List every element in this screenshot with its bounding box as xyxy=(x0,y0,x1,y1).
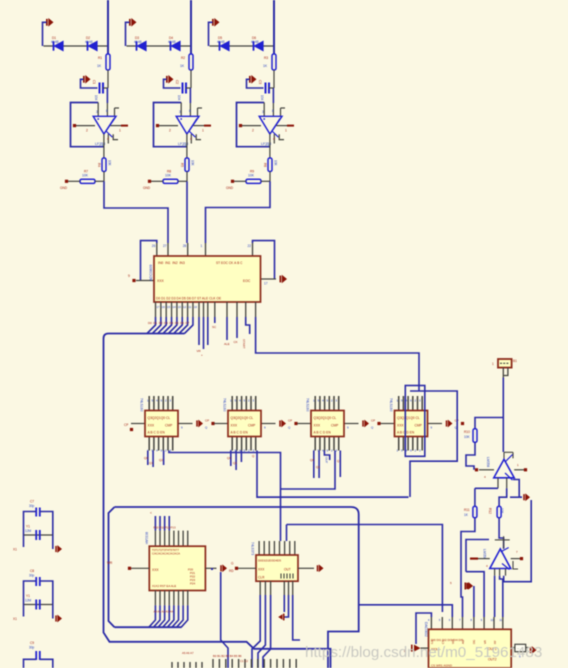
wire hook xyxy=(272,131,278,137)
svg-text:WR: WR xyxy=(107,561,113,565)
wire bus entry D1 xyxy=(152,317,161,334)
pin stub U9 top xyxy=(258,541,260,555)
svg-text:A B C D EN: A B C D EN xyxy=(231,431,249,435)
pin stub U6 bottom xyxy=(338,437,340,451)
wire xyxy=(103,87,108,89)
microcontroller U8 body xyxy=(149,546,205,590)
wire xyxy=(293,595,300,640)
svg-text:START: START xyxy=(242,339,246,349)
pin stub U7 top xyxy=(407,396,409,411)
svg-text:R4: R4 xyxy=(97,163,101,167)
terminal U6 right xyxy=(377,422,380,425)
svg-text:P10 P11 P12 P13: P10 P11 P12 P13 xyxy=(154,526,176,530)
op-amp inner mark xyxy=(272,119,280,131)
pin stub U4 top xyxy=(162,396,164,411)
wire xyxy=(103,172,105,182)
terminal U7 right xyxy=(461,422,464,425)
pin stub U3 xyxy=(236,302,238,317)
terminal output ch3 xyxy=(287,125,294,127)
wire bus entry D2 xyxy=(158,317,167,334)
wire xyxy=(210,45,275,47)
wire RC loop 8 left xyxy=(24,581,37,605)
svg-text:1K: 1K xyxy=(180,64,185,68)
wire ch1 to ADC xyxy=(104,181,168,243)
wire U5 to loop xyxy=(257,451,409,498)
wire U10 left loop xyxy=(416,613,431,644)
resistor R3 xyxy=(272,54,276,70)
svg-text:CMP: CMP xyxy=(165,424,173,428)
svg-text:D2: D2 xyxy=(159,321,163,325)
pin stub U9 top xyxy=(284,541,286,555)
wire xyxy=(131,567,149,569)
svg-text:Q0: Q0 xyxy=(144,456,148,460)
svg-text:CP: CP xyxy=(205,419,209,423)
pin stub U4 bottom xyxy=(158,437,160,451)
svg-text:30p: 30p xyxy=(29,504,35,508)
wire xyxy=(186,172,188,182)
capacitor C2 xyxy=(183,83,187,94)
wire loop U7 outer xyxy=(410,391,457,497)
svg-text:A5 A6 A7: A5 A6 A7 xyxy=(182,651,194,655)
op-amp U1B pins xyxy=(181,103,202,144)
pin stub U3 data xyxy=(155,302,157,317)
capacitor C9 xyxy=(36,651,40,660)
svg-text:B1: B1 xyxy=(513,359,517,363)
pin stub U10 top xyxy=(441,617,443,629)
pin stub U5 top xyxy=(241,396,243,411)
svg-text:74LS160: 74LS160 xyxy=(306,398,310,412)
svg-text:C3: C3 xyxy=(258,80,262,84)
svg-text:Q3Q2Q1Q0 CL: Q3Q2Q1Q0 CL xyxy=(397,416,420,420)
power arrow U9 gnd xyxy=(278,614,284,621)
svg-text:R9: R9 xyxy=(250,170,254,174)
svg-text:DI0 DI1 DI2 DI3 DI4 DI5: DI0 DI1 DI2 DI3 DI4 DI5 xyxy=(431,638,464,642)
svg-text:10K: 10K xyxy=(248,174,255,178)
svg-text:C1: C1 xyxy=(92,80,96,84)
wire xyxy=(234,180,246,182)
pin stub U7 top xyxy=(398,396,400,411)
svg-text:74LS160: 74LS160 xyxy=(223,398,227,412)
pin stub U6 bottom xyxy=(319,437,321,451)
svg-text:1: 1 xyxy=(285,129,287,133)
svg-text:R8: R8 xyxy=(167,170,171,174)
power VCC2 ch3 xyxy=(249,75,257,84)
svg-text:R6: R6 xyxy=(263,163,267,167)
svg-text:4148: 4148 xyxy=(85,40,93,44)
power VCC ch1 xyxy=(46,18,54,27)
wire xyxy=(272,103,274,116)
pin stub U8 bottom xyxy=(173,591,175,606)
svg-text:C1 C2: C1 C2 xyxy=(240,659,248,663)
power arrow after U6 xyxy=(362,420,369,428)
counter U5 body xyxy=(228,411,261,437)
terminal U4 right xyxy=(211,422,214,425)
pin stub U4 bottom xyxy=(162,437,164,451)
pin stub U10 top xyxy=(451,617,453,629)
svg-text:A0 A1 A2 A3 A4: A0 A1 A2 A3 A4 xyxy=(154,610,174,614)
svg-text:XXX: XXX xyxy=(157,279,165,283)
svg-text:10K: 10K xyxy=(464,435,471,439)
svg-text:3: 3 xyxy=(96,110,98,114)
pin stub U4 top xyxy=(148,396,150,411)
svg-text:1 5 4 9 2 3: 1 5 4 9 2 3 xyxy=(397,449,422,453)
wire xyxy=(381,423,395,425)
pin stub Y2 xyxy=(502,368,504,378)
resistor R10 xyxy=(473,429,477,443)
wire xyxy=(186,87,191,89)
wire xyxy=(500,576,503,617)
wire xyxy=(189,88,191,103)
wire bus entry xyxy=(177,605,184,627)
svg-text:Q3Q2Q1Q0 CL: Q3Q2Q1Q0 CL xyxy=(314,416,337,420)
pin stub U8 top xyxy=(164,531,166,547)
svg-text:Q2: Q2 xyxy=(159,458,163,462)
power arrow after U5 xyxy=(279,420,286,428)
wire ch2 to ADC xyxy=(186,181,188,243)
svg-text:74LS160: 74LS160 xyxy=(140,398,144,412)
svg-text:2: 2 xyxy=(86,129,88,133)
wire xyxy=(240,451,242,463)
wire xyxy=(298,567,314,569)
pin stub U10 top xyxy=(473,617,475,629)
svg-text:D3: D3 xyxy=(164,321,168,325)
wire xyxy=(226,317,228,340)
power VCC2 ch1 xyxy=(83,75,91,84)
wire xyxy=(269,87,274,89)
pin stub U9 bottom right xyxy=(283,581,285,595)
wire xyxy=(95,180,104,182)
op-amp U1C xyxy=(259,116,282,134)
pin stub U4 top xyxy=(172,396,174,411)
pin stub U4 bottom xyxy=(172,437,174,451)
pin stub U10 top xyxy=(430,617,432,629)
pin stub U7 top xyxy=(421,396,423,411)
wire xyxy=(324,451,329,461)
power arrow RC 8 xyxy=(55,615,62,623)
svg-text:D0 D1 D2 D3 D4 D5 D6 D7 ST ALE: D0 D1 D2 D3 D4 D5 D6 D7 ST ALE CLK OE xyxy=(156,297,222,301)
power arrow U10 in xyxy=(411,645,421,652)
pin stub U10 top xyxy=(483,617,485,629)
pin stub U6 top xyxy=(328,396,330,411)
terminal ref ch2 xyxy=(148,180,151,183)
pin stub U3 data xyxy=(176,302,178,317)
power arrow U9 out xyxy=(317,564,324,572)
terminal output ch1 xyxy=(121,125,128,127)
svg-text:74LS160: 74LS160 xyxy=(389,398,393,412)
wire xyxy=(511,647,515,649)
op-amp U3 ADC0809 body xyxy=(154,256,261,302)
terminal input ch2 xyxy=(156,124,159,127)
terminal ref ch1 xyxy=(65,180,68,183)
pin stub xyxy=(505,569,507,576)
svg-text:9: 9 xyxy=(128,274,130,278)
wire xyxy=(284,595,289,617)
wire xyxy=(479,469,494,471)
pin stub U4 top xyxy=(167,396,169,411)
pin stub U7 bottom xyxy=(407,437,409,451)
power arrow U8 out xyxy=(220,564,227,572)
wire U9 to bottom xyxy=(252,595,260,668)
svg-text:B0 B1 B2 B3 B4 B5 B6: B0 B1 B2 B3 B4 B5 B6 xyxy=(213,654,242,658)
pin stubs bottom edge row1 xyxy=(172,662,202,668)
svg-text:A B C D EN: A B C D EN xyxy=(148,431,166,435)
terminal U9 left xyxy=(235,567,238,570)
wire xyxy=(24,659,37,668)
svg-text:R5: R5 xyxy=(180,163,184,167)
svg-text:15: 15 xyxy=(167,305,171,309)
svg-text:GND: GND xyxy=(226,186,234,190)
latch U9 body xyxy=(256,555,298,581)
pin stub U8 bottom xyxy=(178,591,180,606)
pin stub U8 bottom xyxy=(168,591,170,606)
pin stub U3 xyxy=(245,302,247,317)
counter U6 body xyxy=(311,411,344,437)
svg-text:1: 1 xyxy=(119,129,121,133)
pin stub U3 data xyxy=(192,302,194,317)
svg-text:XXX: XXX xyxy=(152,568,159,572)
pin stub U10 top xyxy=(493,617,495,629)
pin stub U6 bottom xyxy=(314,437,316,451)
capacitor C1 xyxy=(100,83,104,94)
svg-text:14: 14 xyxy=(172,305,176,309)
pin stub U9 top xyxy=(289,541,291,555)
svg-text:XXX: XXX xyxy=(231,424,238,428)
wire xyxy=(126,22,130,46)
pin stub U3 data xyxy=(160,302,162,317)
U9 logo bars xyxy=(281,574,293,579)
op-amp inner mark xyxy=(106,119,114,131)
op-amp U11A hooks xyxy=(505,455,513,481)
svg-text:74LS373: 74LS373 xyxy=(251,542,255,555)
wire U3 left loop xyxy=(141,241,157,281)
wire xyxy=(214,423,228,425)
pin stub U9 bottom xyxy=(264,581,266,595)
svg-text:12: 12 xyxy=(183,305,187,309)
resistor R9 xyxy=(246,179,261,183)
wire Y2 down xyxy=(502,378,504,453)
resistor R6 xyxy=(268,158,272,172)
resistor R4 xyxy=(102,158,106,172)
wire xyxy=(190,0,192,54)
wire xyxy=(81,79,98,88)
pin stub U6 bottom xyxy=(333,437,335,451)
diode D1 xyxy=(54,41,64,50)
terminal input ch1 xyxy=(73,124,76,127)
svg-text:− +: − + xyxy=(99,144,104,148)
svg-text:D4: D4 xyxy=(169,321,173,325)
terminal U5 right xyxy=(294,422,297,425)
wire bus entry D3 xyxy=(163,317,172,334)
pin stub U6 bottom xyxy=(328,437,330,451)
svg-text:CMP: CMP xyxy=(331,424,339,428)
wire R10 down xyxy=(466,442,475,470)
wire xyxy=(242,125,261,127)
svg-text:22: 22 xyxy=(248,244,252,248)
svg-text:CK: CK xyxy=(234,340,238,344)
svg-text:104: 104 xyxy=(260,95,264,101)
wire R11 down xyxy=(461,518,475,617)
pin stub U3 xyxy=(255,302,257,317)
op-amp U1C pins xyxy=(264,103,285,144)
pin stub U8 top xyxy=(173,531,175,547)
wire feedback loop ch1 xyxy=(71,103,104,147)
svg-text:− +: − + xyxy=(182,144,187,148)
wire xyxy=(23,605,25,617)
pin stub U4 bottom xyxy=(167,437,169,451)
wire xyxy=(276,125,287,127)
svg-text:1K: 1K xyxy=(97,64,102,68)
wire xyxy=(186,134,188,158)
wire bus entry D6 xyxy=(179,317,188,334)
resistor R2 xyxy=(189,54,193,70)
pin stub xyxy=(499,569,501,576)
wire bus entry xyxy=(167,605,174,627)
svg-text:Y1: Y1 xyxy=(26,594,30,598)
resistor R12 xyxy=(497,506,501,517)
wire xyxy=(478,558,490,560)
wire xyxy=(339,451,341,478)
wire xyxy=(152,451,154,468)
wire feedback loop ch2 xyxy=(154,103,187,147)
svg-text:12M: 12M xyxy=(25,599,32,603)
pin stub U3 top xyxy=(205,243,207,256)
pin stub U4 bottom xyxy=(148,437,150,451)
wire to U9 xyxy=(286,525,288,542)
svg-text:30p: 30p xyxy=(29,646,35,650)
wire xyxy=(261,180,270,182)
wire xyxy=(103,134,105,158)
resistor R8 xyxy=(163,179,178,183)
bus U8 bottom xyxy=(115,626,182,628)
svg-text:10K: 10K xyxy=(191,160,195,167)
terminal input ch3 xyxy=(239,124,242,127)
counter U4 body xyxy=(145,411,178,437)
svg-text:30p: 30p xyxy=(29,574,35,578)
power VCC ch3 xyxy=(212,18,220,27)
pin stub U8 bottom xyxy=(154,591,156,606)
svg-text:EOC: EOC xyxy=(243,279,251,283)
wire xyxy=(230,451,232,467)
pin stub U9 top xyxy=(294,541,296,555)
wire xyxy=(154,516,156,531)
pin stub U8 top xyxy=(187,531,189,547)
pin stub U5 bottom xyxy=(236,437,238,451)
svg-text:10K: 10K xyxy=(108,160,112,167)
svg-text:+: + xyxy=(201,353,203,357)
diode D3 xyxy=(137,41,147,50)
pin stub U9 top xyxy=(273,541,275,555)
svg-text:CP: CP xyxy=(288,419,292,423)
svg-text:CP: CP xyxy=(124,423,128,427)
svg-text:ADC0809: ADC0809 xyxy=(149,265,153,281)
pin stub U3 xyxy=(214,302,216,317)
op-amp U11A pins xyxy=(504,452,513,459)
pin stub U7 top xyxy=(417,396,419,411)
pin stub U3 data xyxy=(165,302,167,317)
pin stub U5 top xyxy=(250,396,252,411)
wire xyxy=(246,317,250,334)
wire xyxy=(159,125,178,127)
op-amp U11A xyxy=(494,459,514,478)
wire U8 down xyxy=(221,572,228,668)
svg-text:26: 26 xyxy=(152,244,156,248)
wire bus entry xyxy=(154,605,161,627)
pin stub U7 top xyxy=(412,396,414,411)
svg-text:R7: R7 xyxy=(84,170,88,174)
svg-text:1: 1 xyxy=(202,129,204,133)
terminal ref ch3 xyxy=(231,180,234,183)
svg-text:1: 1 xyxy=(201,244,203,248)
wire xyxy=(269,134,271,158)
pin stub U8 bottom xyxy=(164,591,166,606)
Y2 inside xyxy=(500,362,510,364)
svg-text:CMP: CMP xyxy=(248,424,256,428)
svg-text:ALE: ALE xyxy=(224,342,230,346)
svg-text:<: < xyxy=(150,511,152,515)
svg-text:https://blog.csdn.net/m0_51961: https://blog.csdn.net/m0_51961483 xyxy=(305,644,542,661)
wire xyxy=(235,451,237,471)
svg-text:8: 8 xyxy=(106,109,108,113)
wire bus y497 xyxy=(257,496,409,498)
power VCC ch2 xyxy=(129,18,137,27)
wire xyxy=(297,423,311,425)
wire xyxy=(193,125,204,127)
wire xyxy=(247,79,264,88)
pin stub U3 xyxy=(226,302,228,317)
wire U4 to U9 xyxy=(169,451,281,542)
wire RC loop 7 left xyxy=(24,512,37,536)
pin stub U9 bottom right xyxy=(288,581,290,595)
svg-text:R10: R10 xyxy=(464,430,470,434)
svg-text:8: 8 xyxy=(272,109,274,113)
pin stub U7 top xyxy=(402,396,404,411)
svg-text:IN0 IN1 IN2 IN3: IN0 IN1 IN2 IN3 xyxy=(158,261,185,265)
pin stub U5 bottom xyxy=(231,437,233,451)
pin stub U7 bottom xyxy=(402,437,404,451)
terminal U8 left xyxy=(128,567,131,570)
wire xyxy=(273,70,275,88)
svg-text:Q1: Q1 xyxy=(149,461,153,465)
wire xyxy=(110,125,121,127)
svg-text:CLR: CLR xyxy=(258,576,265,580)
svg-text:GND: GND xyxy=(60,186,68,190)
wire U9 to bottom xyxy=(263,595,271,668)
svg-text:2: 2 xyxy=(252,129,254,133)
svg-text:Y1: Y1 xyxy=(26,525,30,529)
svg-text:D5: D5 xyxy=(175,321,179,325)
svg-text:4: 4 xyxy=(273,137,275,141)
wire xyxy=(189,103,191,116)
svg-text:CS WR1 AGND: CS WR1 AGND xyxy=(431,664,453,668)
svg-text:D0: D0 xyxy=(148,321,152,325)
svg-text:Q1: Q1 xyxy=(316,465,320,469)
wire RC mid 7 xyxy=(24,534,53,536)
svg-text:4148: 4148 xyxy=(217,40,225,44)
svg-text:CACACACACACACA: CACACACACACACA xyxy=(152,552,180,556)
svg-text:Q3Q2Q1Q0 CL: Q3Q2Q1Q0 CL xyxy=(231,416,254,420)
wire y524 to U10 xyxy=(287,525,443,613)
pin stub U8 bottom xyxy=(159,591,161,606)
wire xyxy=(494,576,496,617)
diode D5 xyxy=(220,41,230,50)
wire xyxy=(52,535,54,549)
svg-text:OUT: OUT xyxy=(325,457,329,464)
svg-text:XXX: XXX xyxy=(148,424,155,428)
pin stub U4 top xyxy=(153,396,155,411)
svg-text:10K: 10K xyxy=(165,174,172,178)
wire bus entry D5 xyxy=(174,317,183,334)
pin stub U3 top xyxy=(167,243,169,256)
